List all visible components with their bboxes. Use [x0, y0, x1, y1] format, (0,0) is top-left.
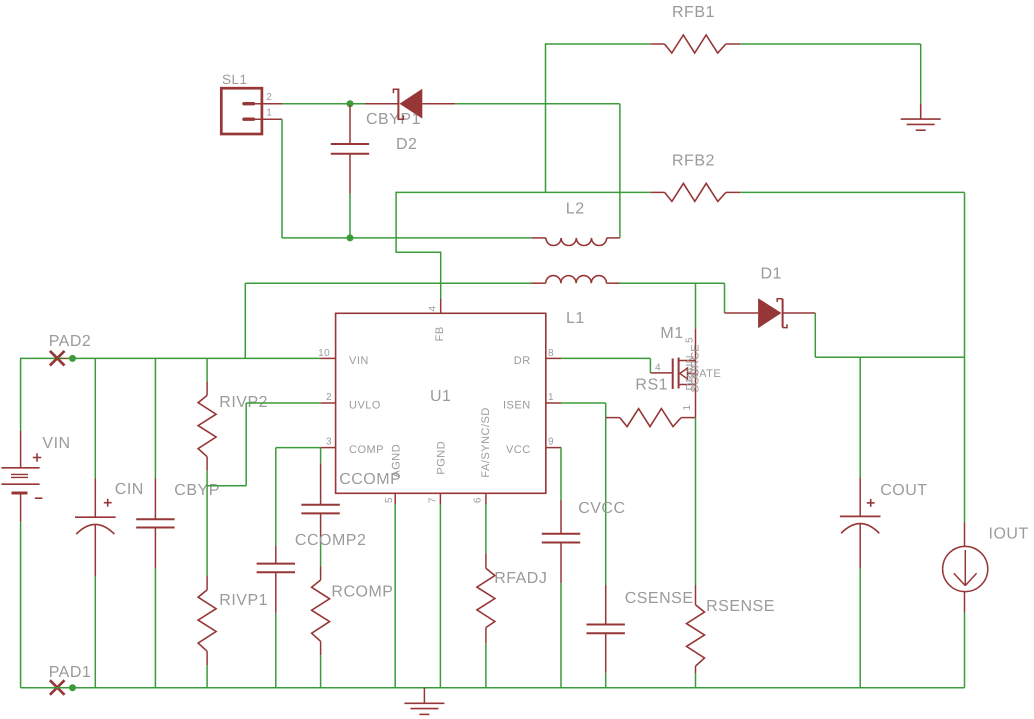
wire RCOMP bottom [320, 655, 322, 688]
resistor RFB1 [651, 43, 665, 45]
svg-text:1: 1 [548, 392, 554, 403]
svg-text:CCOMP2: CCOMP2 [295, 532, 366, 549]
wire battery minus to bottom rail [20, 522, 22, 688]
capacitor CVCC [560, 500, 562, 534]
battery VIN [20, 431, 22, 468]
svg-text:RFADJ: RFADJ [494, 570, 547, 587]
wire COMP pin net [276, 447, 321, 449]
pad PAD1 [50, 680, 65, 695]
svg-text:IOUT: IOUT [989, 526, 1029, 543]
svg-text:PAD2: PAD2 [49, 333, 92, 350]
wire D1 cathode to output rail [814, 313, 816, 357]
wire CVCC bottom [560, 583, 562, 688]
wire pin5 to bottom rail [394, 504, 396, 688]
svg-text:VIN: VIN [42, 435, 70, 452]
pin 6 FA/SYNC/SD bottom [485, 493, 487, 504]
svg-text:D2: D2 [396, 136, 417, 153]
resistor RFB2 [651, 191, 665, 193]
wire COUT bottom [859, 568, 861, 687]
svg-text:FA/SYNC/SD: FA/SYNC/SD [480, 407, 492, 477]
pin 5 AGND bottom [394, 493, 396, 504]
pin 8 DR [546, 357, 561, 359]
capacitor CBYP [154, 358, 156, 478]
resistor RCOMP [320, 566, 322, 580]
ground GND2 [423, 688, 425, 704]
wire pin6 to RFADJ [485, 504, 487, 554]
pin 9 VCC [546, 447, 561, 449]
svg-text:ISEN: ISEN [503, 400, 531, 412]
svg-text:PGND: PGND [435, 441, 447, 475]
svg-text:5: 5 [685, 337, 696, 343]
connector SL1 [221, 88, 262, 134]
op-amp U1 (regulator IC) body [336, 313, 546, 493]
svg-text:CBYP: CBYP [174, 482, 220, 499]
svg-text:L2: L2 [566, 201, 585, 218]
wire FB loop down to U1 pin 4 [396, 192, 441, 299]
capacitor CCOMP [320, 463, 322, 504]
diode D1 (schottky, pointing right) [725, 312, 759, 314]
svg-text:CVCC: CVCC [578, 500, 625, 517]
wire FB row y=192 [396, 191, 651, 193]
wire divider node [206, 471, 208, 486]
svg-text:RFB2: RFB2 [672, 153, 715, 170]
svg-text:10: 10 [318, 348, 330, 359]
wire CCOMP to RCOMP [320, 543, 322, 566]
wire SL1 pin1 down to lower node [281, 119, 283, 238]
wire L1 right to D1 and M1 drain [620, 282, 725, 284]
pin SL1-2 stub [254, 103, 283, 105]
pin 10 VIN [320, 357, 336, 359]
wire right edge down to IOUT [964, 357, 966, 522]
ground GND1 [920, 104, 922, 119]
svg-text:CSENSE: CSENSE [625, 590, 694, 607]
wire CBYP1 bottom to node [349, 194, 351, 238]
svg-text:D1: D1 [761, 266, 782, 283]
svg-text:5: 5 [384, 497, 395, 503]
capacitor COUT (polarized) [859, 357, 861, 477]
pin 2 UVLO [321, 402, 336, 404]
svg-text:COMP: COMP [349, 444, 384, 456]
wire RSENSE bottom [695, 673, 697, 688]
wire pin7 to bottom rail [439, 504, 441, 688]
svg-text:U1: U1 [430, 388, 451, 405]
wire VCC net down [560, 448, 562, 500]
wire bottom ground rail [21, 687, 965, 689]
resistor RIVP2 [206, 358, 208, 381]
resistor RIVP1 [206, 486, 208, 576]
svg-text:7: 7 [427, 497, 438, 503]
wire D2 anode to L2 right vertical [455, 103, 620, 105]
inductor L2 [350, 237, 532, 239]
svg-text:2: 2 [326, 392, 332, 403]
current source IOUT [964, 522, 966, 546]
wire CIN bottom [94, 576, 96, 688]
svg-text:M1: M1 [660, 325, 683, 342]
wire M1 source down to RSENSE [695, 418, 697, 585]
wire RFB1 left + drop to FB row [546, 43, 651, 45]
capacitor CBYP1 [349, 105, 351, 144]
diode D2 (schottky, pointing left) [365, 103, 398, 105]
pin SL1-1 stub [254, 118, 283, 120]
wire RIVP1 bottom [206, 665, 208, 688]
svg-text:DR: DR [514, 355, 531, 367]
svg-text:CCOMP: CCOMP [339, 471, 401, 488]
svg-text:FB: FB [434, 326, 446, 341]
wire CCOMP2 bottom [275, 613, 277, 688]
pad PAD2 [21, 357, 58, 359]
wire RFB1 right to ground [740, 43, 921, 45]
node junction CBYP1 top [347, 100, 354, 107]
svg-text:UVLO: UVLO [349, 400, 381, 412]
wire RFADJ bottom [485, 643, 487, 687]
svg-text:8: 8 [548, 348, 554, 359]
node junction lower [347, 234, 354, 241]
svg-text:RIVP1: RIVP1 [219, 592, 268, 609]
wire RFB2 right to output right edge [740, 191, 964, 193]
svg-text:VIN: VIN [349, 355, 369, 367]
svg-text:RSENSE: RSENSE [706, 598, 775, 615]
capacitor CCOMP2 [275, 546, 277, 564]
wire VIN top rail [73, 357, 321, 359]
wire IOUT bottom [964, 613, 966, 688]
svg-text:4: 4 [427, 305, 438, 311]
wire L1 left feed from VIN rail [245, 282, 531, 284]
resistor RFADJ [485, 554, 487, 569]
pin 3 COMP [321, 447, 336, 449]
svg-text:SL1: SL1 [222, 72, 248, 87]
svg-text:9: 9 [548, 437, 554, 448]
svg-text:RCOMP: RCOMP [331, 583, 393, 600]
wire DR pin to M1 gate [561, 357, 650, 359]
wire left edge down to battery [20, 358, 22, 431]
svg-text:3: 3 [326, 437, 332, 448]
svg-text:VCC: VCC [506, 444, 531, 456]
wire CBYP bottom [154, 568, 156, 688]
svg-text:4: 4 [655, 363, 661, 374]
svg-text:2: 2 [266, 92, 272, 103]
svg-text:6: 6 [472, 497, 483, 503]
wire SL1 pin2 to CBYP1 node [282, 103, 365, 105]
svg-text:CIN: CIN [115, 481, 144, 498]
svg-text:COUT: COUT [880, 482, 927, 499]
pin 4 FB top [440, 299, 442, 313]
pin 1 ISEN [546, 402, 561, 404]
inductor L1 [532, 282, 546, 284]
svg-text:RFB1: RFB1 [672, 4, 715, 21]
resistor RSENSE [695, 585, 697, 605]
wire M1 drain up to L1 node [695, 283, 697, 328]
svg-text:CBYP1: CBYP1 [366, 111, 421, 128]
wire CSENSE bottom [605, 673, 607, 688]
capacitor CSENSE [605, 585, 607, 625]
svg-text:1: 1 [266, 108, 272, 119]
svg-text:PAD1: PAD1 [49, 664, 92, 681]
wire ISEN net [561, 402, 605, 404]
resistor RS1 [606, 417, 620, 419]
transistor M1 (n-mosfet) [650, 372, 672, 374]
capacitor CIN (polarized) [94, 358, 96, 478]
svg-text:GATE: GATE [690, 368, 721, 380]
svg-text:1: 1 [682, 404, 693, 410]
svg-text:L1: L1 [566, 310, 585, 327]
svg-text:RS1: RS1 [635, 377, 668, 394]
wire CCOMP2 top [275, 448, 277, 546]
pin 7 PGND bottom [439, 493, 441, 504]
